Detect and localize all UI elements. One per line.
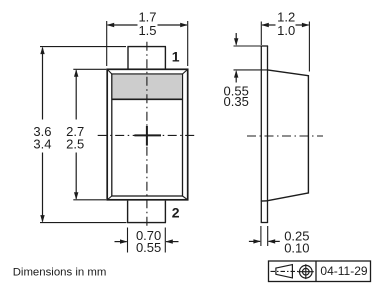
- svg-text:0.10: 0.10: [284, 240, 309, 255]
- svg-text:1: 1: [172, 49, 180, 65]
- dim 0.25/0.10 arrowheads: [253, 239, 275, 243]
- pin 2 tab: [127, 201, 166, 223]
- cathode band bottom line: [112, 98, 183, 100]
- dim 0.70/0.55 arrowheads: [120, 239, 173, 243]
- dim 1.7/1.5 extension lines: [107, 21, 188, 66]
- dim 0.55/0.35 arrows: [235, 33, 237, 83]
- center cross: [134, 126, 161, 146]
- svg-text:1.0: 1.0: [277, 23, 295, 38]
- dim 2.7/2.5 dimension line: [75, 70, 77, 199]
- projection circle symbol: [298, 264, 314, 279]
- body corner bevels: [107, 69, 188, 200]
- dim 2.7/2.5 arrowheads: [74, 69, 78, 200]
- side view centerline: [247, 135, 323, 137]
- body inner outline: [112, 74, 183, 196]
- svg-text:04-11-29: 04-11-29: [320, 264, 367, 278]
- svg-text:1.5: 1.5: [138, 23, 156, 38]
- dim 0.70/0.55 extension lines: [128, 228, 166, 253]
- horizontal centerline: [98, 134, 196, 136]
- dim 3.6/3.4 dimension line: [42, 48, 44, 222]
- projection symbol box divider: [315, 261, 317, 282]
- dim 1.7/1.5 dimension line: [108, 24, 187, 26]
- dim 0.25/0.10 extension lines: [261, 226, 268, 246]
- body outer outline: [107, 69, 188, 200]
- side view body profile: [261, 70, 309, 201]
- svg-text:0.35: 0.35: [224, 94, 249, 109]
- dim 3.6/3.4 arrowheads: [40, 47, 44, 223]
- dim 1.2/1.0 arrowheads: [261, 23, 309, 27]
- dim 3.6/3.4 extension lines: [40, 47, 127, 223]
- pin 1 tab: [127, 47, 166, 69]
- dim 1.2/1.0 dimension lines: [262, 24, 309, 26]
- side view lead: [261, 46, 268, 223]
- svg-text:Dimensions in mm: Dimensions in mm: [13, 266, 107, 278]
- projection cone symbol: [271, 265, 299, 278]
- svg-text:2: 2: [172, 204, 180, 220]
- dim 2.7/2.5 extension lines: [73, 69, 106, 200]
- dim 1.7/1.5 arrowheads: [107, 23, 188, 27]
- dim 0.70/0.55 dimension lines: [115, 241, 179, 243]
- vertical centerline: [146, 42, 148, 228]
- dim 0.55/0.35 extension lines: [234, 46, 268, 70]
- projection symbol box: [269, 261, 371, 282]
- svg-text:3.4: 3.4: [33, 136, 51, 151]
- dim 1.2/1.0 extension lines: [261, 22, 309, 72]
- svg-text:0.55: 0.55: [136, 240, 161, 255]
- cathode band: [113, 75, 182, 99]
- dim 0.25/0.10 dimension lines: [249, 240, 280, 242]
- svg-text:2.5: 2.5: [66, 136, 84, 151]
